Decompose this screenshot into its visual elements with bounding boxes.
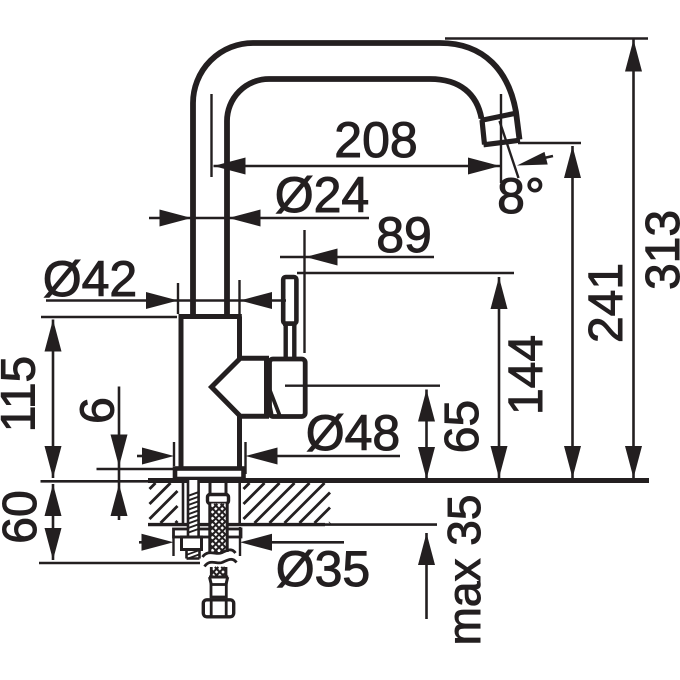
dim O48 line left bbox=[137, 455, 145, 458]
dim 313 line bbox=[632, 40, 635, 479]
dim O48 extension lines bbox=[174, 442, 246, 474]
threaded stud bbox=[187, 480, 199, 536]
dim O35 extension lines bbox=[174, 527, 241, 556]
svg-text:6: 6 bbox=[72, 397, 125, 424]
lever base pentagon bbox=[212, 358, 267, 416]
aerator vertical reference line bbox=[500, 94, 502, 183]
svg-text:Ø24: Ø24 bbox=[275, 167, 370, 223]
dim 115 top reference line bbox=[41, 316, 177, 318]
countertop hatch right band bbox=[244, 483, 331, 523]
svg-text:Ø48: Ø48 bbox=[306, 405, 401, 461]
nut facets bbox=[211, 600, 226, 617]
faucet body right edge lower bbox=[237, 415, 242, 469]
dim 241 top reference line bbox=[518, 142, 581, 144]
spout inner contour bbox=[227, 79, 482, 317]
svg-text:115: 115 bbox=[0, 356, 46, 433]
countertop bottom line bbox=[148, 523, 325, 526]
hose braid upper bbox=[209, 504, 229, 553]
svg-text:241: 241 bbox=[580, 263, 633, 343]
spout outer contour bbox=[193, 43, 520, 317]
aerator tilted axis line bbox=[500, 121, 519, 178]
aerator outlet body bbox=[482, 120, 520, 145]
aerator crossline bbox=[481, 114, 515, 121]
dim O35 line right bbox=[271, 541, 344, 544]
base flange bbox=[175, 469, 244, 480]
svg-text:Ø35: Ø35 bbox=[276, 541, 371, 597]
dim 144 line bbox=[498, 277, 501, 478]
countertop bottom extension right bbox=[325, 523, 437, 526]
hose break wave upper bbox=[203, 550, 236, 557]
dim 208 extension line (tube axis) bbox=[210, 94, 212, 177]
dim 208 line bbox=[214, 165, 501, 168]
countertop hatch left band bbox=[150, 483, 178, 523]
hose break wave lower bbox=[205, 559, 237, 566]
dim 6 reference line (flange top) bbox=[97, 468, 179, 470]
svg-text:Ø42: Ø42 bbox=[43, 251, 138, 307]
hose collar bbox=[208, 495, 229, 504]
hose end nut bbox=[203, 600, 233, 617]
dim O42 line bbox=[46, 299, 286, 302]
dim 60 line bbox=[52, 484, 55, 560]
dim 89 extension line bbox=[303, 230, 305, 353]
dim O42 extension lines bbox=[178, 280, 240, 314]
svg-text:max 35: max 35 bbox=[438, 495, 490, 646]
mounting washer plate bbox=[174, 529, 242, 537]
faucet body left edge bbox=[179, 317, 184, 469]
stud stub below nut bbox=[187, 550, 200, 559]
dim max35 line bbox=[425, 533, 428, 619]
dim 241 line bbox=[571, 146, 574, 478]
mounting nut bbox=[182, 537, 202, 550]
svg-text:60: 60 bbox=[0, 490, 47, 543]
cartridge cap bbox=[270, 359, 306, 417]
flexible hose upper connector bbox=[210, 480, 226, 495]
dim 6 line bbox=[118, 387, 121, 521]
svg-text:208: 208 bbox=[334, 112, 417, 168]
dim 313 top reference line bbox=[445, 37, 648, 40]
dim 89 line bbox=[280, 256, 434, 259]
svg-text:313: 313 bbox=[637, 210, 680, 290]
faucet body top bbox=[179, 314, 242, 319]
hose braid lower bbox=[211, 567, 226, 577]
threaded stud thread hatch bbox=[187, 492, 199, 533]
countertop top surface extension left bbox=[41, 480, 149, 483]
dim O48 line right bbox=[275, 455, 400, 458]
dim 115 line bbox=[52, 320, 55, 479]
hose ferrule bbox=[209, 577, 228, 585]
dim O35 line left bbox=[139, 541, 145, 544]
faucet body right edge upper bbox=[237, 317, 242, 359]
dim 144 top reference line bbox=[297, 272, 514, 274]
svg-text:8°: 8° bbox=[497, 168, 545, 224]
hose end connector bbox=[211, 585, 226, 598]
svg-text:65: 65 bbox=[436, 400, 489, 453]
mounting hole left edge bbox=[182, 483, 185, 527]
dim 60 bottom reference line bbox=[39, 562, 200, 564]
handle neck bbox=[283, 324, 297, 358]
countertop top surface line bbox=[148, 478, 649, 483]
angle 8deg leader bbox=[544, 156, 553, 158]
dim 65 line bbox=[425, 390, 428, 480]
dim O24 line bbox=[149, 217, 369, 220]
dim 65 top reference line bbox=[285, 385, 440, 387]
svg-text:144: 144 bbox=[500, 335, 553, 415]
mounting hole right edge bbox=[238, 483, 241, 527]
svg-text:89: 89 bbox=[376, 207, 432, 263]
cap detail diagonals bbox=[267, 389, 280, 416]
handle lever stick bbox=[283, 277, 296, 324]
